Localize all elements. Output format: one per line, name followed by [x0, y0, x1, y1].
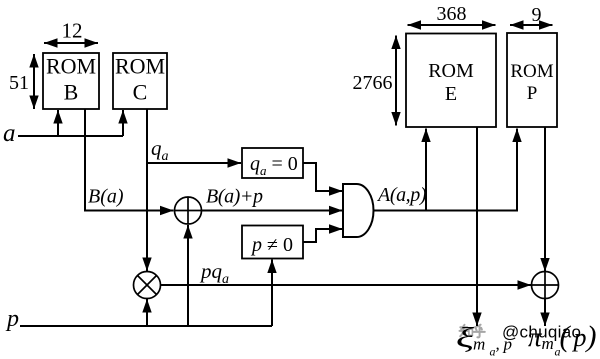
svg-text:a: a	[3, 120, 16, 147]
svg-text:9: 9	[532, 4, 542, 26]
svg-text:m: m	[473, 335, 485, 354]
wire multiplier output pq_a to adder	[161, 284, 532, 286]
comparator box q_a = 0	[242, 148, 303, 178]
svg-text:,: ,	[496, 335, 500, 354]
wire p to multiplier	[146, 299, 148, 326]
wire adder output	[544, 299, 546, 327]
svg-text:ROM: ROM	[115, 54, 165, 79]
wire ROM B output B(a)	[85, 109, 174, 211]
svg-text:P: P	[527, 83, 538, 104]
wire ROM C output q_a down to multiplier	[146, 109, 148, 271]
AND gate	[343, 184, 374, 237]
wire q_a branch to comparator	[147, 162, 241, 164]
svg-text:12: 12	[62, 19, 83, 43]
node pi m_a (p) output label	[528, 320, 597, 359]
dimension arrow 2766	[395, 36, 397, 126]
svg-text:p: p	[503, 335, 513, 354]
svg-text:ROM: ROM	[428, 60, 474, 82]
ROM B	[43, 53, 99, 109]
svg-text:ROM: ROM	[510, 61, 553, 82]
wire a input	[18, 135, 123, 137]
wire p to p!=0 box	[271, 260, 273, 327]
svg-text:p: p	[572, 323, 587, 352]
svg-text:E: E	[445, 83, 457, 105]
svg-text:B: B	[64, 80, 79, 105]
svg-text:): )	[585, 320, 597, 353]
svg-text:qa = 0: qa = 0	[250, 153, 298, 178]
dimension arrow 368	[408, 24, 496, 26]
wire ROM E output	[476, 128, 478, 327]
ROM E	[406, 34, 496, 128]
wire a to ROM B	[57, 110, 59, 136]
wire p!=0 to AND gate	[303, 229, 343, 242]
svg-text:368: 368	[437, 3, 467, 25]
svg-text:ξ: ξ	[456, 322, 475, 353]
wire AND output to ROM P	[374, 129, 518, 211]
wire p input	[20, 325, 272, 327]
svg-text:ROM: ROM	[46, 54, 96, 79]
svg-text:51: 51	[9, 72, 29, 94]
svg-text:C: C	[133, 80, 148, 105]
dimension arrow 51	[33, 54, 35, 109]
wire branch to ROM E	[425, 129, 427, 211]
adder U1 (B(a)+p)	[175, 197, 202, 224]
wire ROM P output to adder	[544, 128, 546, 272]
comparator box p != 0	[242, 226, 303, 259]
svg-text:p: p	[5, 306, 19, 332]
wire a to ROM C	[122, 110, 124, 136]
ROM C	[113, 53, 167, 109]
dimension arrow 9	[510, 24, 553, 26]
wire adder to AND gate	[202, 210, 343, 212]
adder U3 (output)	[532, 272, 559, 299]
svg-text:m: m	[542, 334, 554, 353]
svg-text:B(a): B(a)	[88, 186, 124, 208]
svg-text:2766: 2766	[353, 72, 393, 94]
wire p to adder	[187, 225, 189, 326]
multiplier U2	[134, 272, 161, 299]
wire q_a=0 to AND gate	[303, 163, 343, 191]
ROM P	[507, 33, 557, 127]
svg-text:B(a)+p: B(a)+p	[206, 186, 263, 208]
svg-text:p ≠ 0: p ≠ 0	[250, 234, 293, 256]
watermark zhihu logo	[460, 325, 485, 338]
node xi m_a,p output label	[456, 322, 512, 359]
dimension arrow 12	[44, 42, 98, 44]
svg-text:A(a,p): A(a,p)	[376, 184, 427, 206]
